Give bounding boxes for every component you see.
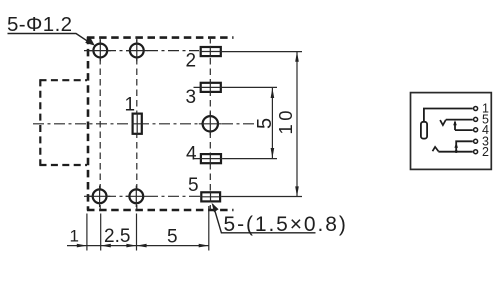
svg-text:5: 5	[167, 227, 178, 248]
outline left edge	[87, 37, 90, 211]
dim2.5 right arrow	[126, 244, 136, 248]
svg-text:3: 3	[186, 87, 197, 108]
dimension 5 bottom arrow	[271, 148, 275, 158]
extension line below outline x=87	[86, 214, 88, 251]
crosshair H2	[126, 40, 148, 62]
pad 4	[201, 154, 221, 163]
pad 2 centerlines	[200, 46, 222, 57]
hole H4 bottom-mid	[129, 189, 143, 203]
schematic box	[411, 93, 492, 170]
sleeve contact (jack)	[421, 122, 427, 139]
dimension 10 top arrow	[295, 52, 299, 62]
switch link 5-4	[454, 122, 456, 130]
wire pin5	[446, 119, 473, 121]
switch arrow 5-4	[453, 120, 457, 125]
switch arrow 3-2	[454, 143, 458, 148]
extension line below x=137	[136, 214, 138, 251]
junction node	[455, 150, 458, 153]
crosshair H4	[126, 186, 148, 208]
svg-text:1: 1	[70, 227, 79, 246]
label 5-phi1.2	[7, 13, 72, 36]
dim5 right arrow	[199, 244, 209, 248]
hole H3 bottom-left	[93, 189, 107, 203]
centerline vertical x=100	[99, 37, 101, 210]
svg-text:2: 2	[482, 145, 489, 159]
ring contact check	[440, 120, 446, 125]
pad 2	[201, 47, 221, 56]
extension line below x=209	[208, 206, 210, 251]
pad 1 centerline	[132, 113, 143, 135]
extension line pad3 to dim5	[222, 86, 277, 88]
svg-text:5: 5	[254, 118, 276, 129]
crosshair H3	[89, 186, 111, 208]
wire pin1 to sleeve	[424, 109, 473, 122]
svg-text:5-(1.5×0.8): 5-(1.5×0.8)	[224, 213, 348, 236]
pin 4 terminal	[474, 128, 478, 132]
extension line pad5 to dim10	[221, 196, 302, 198]
svg-text:4: 4	[186, 144, 197, 165]
wire pin3	[456, 141, 473, 151]
leader note line	[213, 205, 316, 233]
svg-text:5-Φ1.2: 5-Φ1.2	[7, 13, 72, 36]
extension line pad4 to dim5	[222, 158, 277, 160]
leader arrowhead	[85, 36, 95, 45]
body bump left	[40, 79, 88, 165]
dim1 left arrow	[77, 244, 87, 248]
pin 5 terminal	[474, 117, 478, 121]
svg-text:5: 5	[188, 175, 199, 196]
dim5 left arrow	[137, 244, 147, 248]
svg-text:1: 1	[125, 95, 136, 116]
pad 5 centerlines	[200, 191, 221, 202]
tip contact caret	[433, 147, 439, 152]
hole H5 middle	[203, 116, 218, 131]
crosshair H1	[90, 40, 112, 62]
svg-text:10: 10	[275, 107, 296, 135]
svg-text:2.5: 2.5	[104, 226, 130, 247]
pin 3 terminal	[474, 139, 478, 143]
dimension 5 vertical line	[271, 88, 273, 158]
pad 3	[201, 83, 221, 92]
centerline vertical x=210 (pad column)	[209, 37, 211, 210]
extension line pad2 to dim10	[222, 51, 302, 53]
dim1/2.5 arrow at x=100	[101, 244, 111, 248]
outline top edge	[87, 36, 234, 39]
extension line below x=100	[100, 214, 102, 251]
leader line to hole H1	[8, 34, 89, 42]
dimension 5 top arrow	[271, 88, 275, 98]
pin 2 terminal	[474, 150, 478, 154]
pin 1 terminal	[474, 107, 478, 111]
wire pin4	[455, 129, 473, 131]
hole H1 top-left	[93, 44, 107, 58]
pad 4 centerlines	[194, 153, 223, 164]
centerline horizontal bottom hole row	[84, 195, 200, 197]
centerline horizontal top hole row	[84, 50, 199, 52]
centerline vertical x=137	[136, 37, 138, 210]
hole H2 top-mid	[130, 44, 144, 58]
dimension 10 vertical line	[296, 52, 298, 197]
pad 5	[201, 192, 220, 201]
leader note arrowhead at pad5	[212, 203, 219, 212]
svg-text:2: 2	[186, 51, 197, 72]
dimension 10 bottom arrow	[295, 186, 299, 196]
wire pin2	[438, 151, 472, 153]
pad 1 (vertical)	[133, 114, 142, 134]
outline bottom edge	[87, 209, 234, 212]
pad 3 centerlines	[194, 82, 222, 93]
crosshair H5	[199, 112, 222, 135]
bottom dimension line	[67, 245, 209, 247]
centerline horizontal middle row	[33, 123, 258, 125]
